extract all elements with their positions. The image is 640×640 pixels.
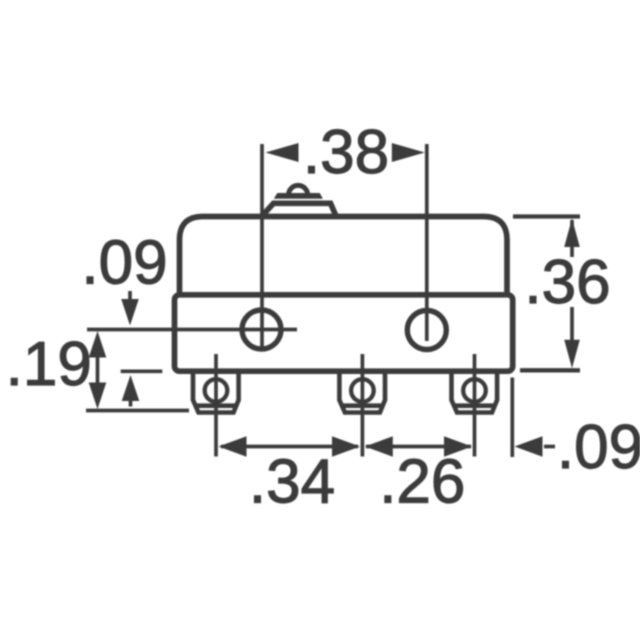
svg-text:.26: .26 [379, 447, 465, 516]
svg-text:.19: .19 [6, 330, 92, 399]
svg-text:.09: .09 [81, 229, 167, 298]
svg-text:.38: .38 [303, 118, 389, 187]
svg-text:.34: .34 [249, 447, 335, 516]
svg-text:.09: .09 [557, 413, 640, 482]
svg-text:.36: .36 [524, 248, 610, 317]
